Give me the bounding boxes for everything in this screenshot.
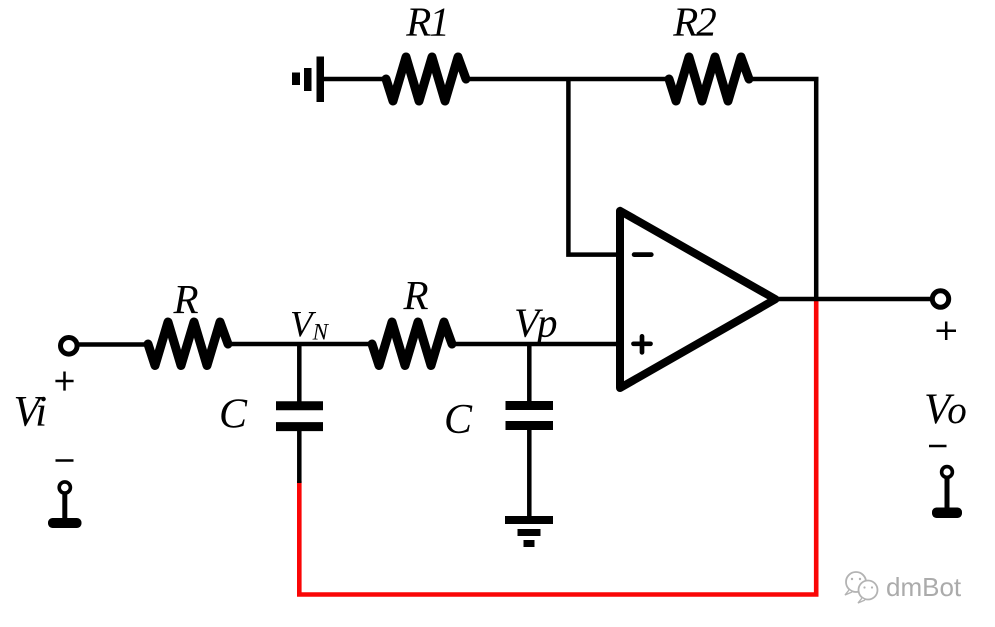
svg-text:Vp: Vp bbox=[514, 300, 557, 346]
resistor R (first, input) bbox=[148, 322, 228, 366]
output reference terminal (post symbol) bbox=[932, 467, 962, 518]
wire: highlighted net from C1 bottom to op-amp output (red) bbox=[299, 298, 816, 595]
svg-text:Vi: Vi bbox=[14, 389, 47, 436]
svg-text:C: C bbox=[219, 392, 248, 438]
wire: capacitor C1 bottom lead (black part) bbox=[297, 431, 302, 483]
label minus (input polarity) bbox=[56, 459, 74, 462]
svg-text:R: R bbox=[402, 272, 428, 318]
input terminal Vi (open circle) bbox=[61, 338, 78, 355]
resistor R (second) bbox=[372, 322, 452, 366]
resistor R2 bbox=[669, 57, 749, 101]
wire: node Vp down to capacitor C2 bbox=[527, 344, 532, 402]
wire: op-amp output to output terminal bbox=[775, 297, 931, 302]
wire: second R to op-amp + input through node Vp bbox=[452, 342, 618, 347]
capacitor C1 bbox=[276, 406, 323, 427]
capacitor C2 bbox=[506, 406, 554, 426]
ground G1 (left-facing, at R1 left) bbox=[292, 57, 324, 103]
resistor R1 bbox=[386, 57, 466, 101]
op-amp U1 bbox=[620, 211, 776, 388]
wire: ground G1 to resistor R1 bbox=[322, 77, 386, 82]
input reference terminal (post symbol) bbox=[48, 482, 82, 528]
wire: node VN down to capacitor C1 bbox=[297, 344, 302, 402]
svg-text:VN: VN bbox=[290, 305, 330, 346]
label + (input polarity) bbox=[55, 372, 73, 391]
watermark dmBot (WeChat logo + text) bbox=[845, 572, 962, 603]
op-amp inverting input marker (minus) bbox=[634, 252, 651, 257]
label + (output polarity) bbox=[937, 322, 957, 341]
wire: R1 to R2 (through feedback node) bbox=[466, 77, 669, 82]
svg-text:C: C bbox=[444, 397, 473, 443]
op-amp non-inverting input marker (plus) bbox=[634, 336, 651, 352]
wire: feedback from top wire down to inverting input bbox=[568, 79, 617, 255]
wire: R2 to output corner bbox=[749, 77, 819, 82]
svg-text:R1: R1 bbox=[405, 0, 448, 45]
svg-text:R: R bbox=[172, 276, 198, 322]
wire: right vertical from R2 down to output node bbox=[814, 79, 819, 299]
svg-text:dmBot: dmBot bbox=[886, 572, 962, 602]
svg-text:Vo: Vo bbox=[924, 386, 967, 433]
wire: input terminal to resistor R (first) bbox=[78, 342, 149, 347]
label minus (output polarity) bbox=[929, 445, 947, 448]
wire: R to second R through node VN bbox=[228, 342, 372, 347]
svg-text:R2: R2 bbox=[672, 0, 716, 45]
output terminal Vo (open circle) bbox=[932, 291, 948, 307]
ground G2 bbox=[505, 516, 553, 547]
wire: capacitor C2 to ground G2 bbox=[527, 430, 532, 517]
